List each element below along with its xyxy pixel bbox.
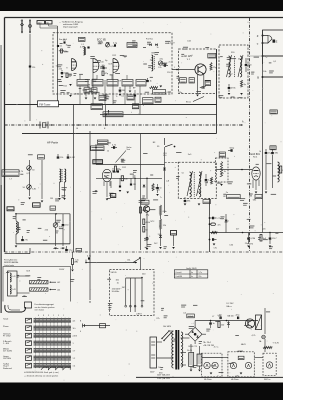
terminal label box 60 ohm xyxy=(46,21,53,24)
wire right column risers xyxy=(265,158,267,190)
terminal label box TA/TE xyxy=(2,170,19,177)
tube V1 heater xyxy=(204,362,210,368)
wire C line left faint xyxy=(250,55,263,57)
svg-text:0A70: 0A70 xyxy=(241,343,247,346)
wire osc section bus xyxy=(16,213,70,215)
ground ground20 xyxy=(126,192,129,194)
ground ground7 xyxy=(160,86,163,88)
svg-text:1M: 1M xyxy=(122,287,125,289)
capacitor C2b xyxy=(87,46,89,48)
capacitor C2 xyxy=(61,72,64,74)
svg-text:150 286k: 150 286k xyxy=(3,358,11,360)
svg-text:50-60Hz: 50-60Hz xyxy=(112,291,120,293)
resistor R12 zigzag xyxy=(240,80,242,87)
antenna dipole symbol AN1 xyxy=(21,20,23,34)
wire IF bus lower xyxy=(96,177,162,179)
annotation scan noise speckles xyxy=(179,21,182,24)
switch matrix sawtooth contacts xyxy=(41,367,70,370)
ground ground21b xyxy=(119,190,122,192)
capacitor C64 xyxy=(269,237,272,239)
node arrow A xyxy=(241,124,243,126)
capacitor C20 xyxy=(57,156,60,158)
wire core line L20 xyxy=(61,169,63,182)
label box K9 xyxy=(127,95,134,100)
wire cap leads psu xyxy=(190,344,192,353)
capacitor C1b input xyxy=(57,45,59,47)
resistor R2 xyxy=(102,71,104,76)
capacitor C40 xyxy=(230,149,232,152)
svg-text:Ox×xx0: Ox×xx0 xyxy=(175,271,181,274)
svg-text:BA 100: BA 100 xyxy=(228,315,234,318)
capacitor C1c xyxy=(63,41,65,43)
label box Fi2 values xyxy=(203,200,211,204)
svg-text:1 - 400: 1 - 400 xyxy=(3,343,9,345)
ferrite rod upper hatched xyxy=(30,281,49,284)
varicap diode D2 xyxy=(155,44,157,46)
label box row K5 xyxy=(136,80,146,87)
wire det out line xyxy=(216,169,252,171)
label box 1xx xyxy=(141,200,149,204)
svg-text:0,5M: 0,5M xyxy=(70,157,75,159)
trimmer capacitor CT2 xyxy=(27,166,32,171)
svg-text:L43: L43 xyxy=(13,289,16,291)
wire d11 riser xyxy=(225,214,227,220)
svg-text:1 7: 1 7 xyxy=(73,350,76,352)
wire tube pins Rö4 xyxy=(252,180,254,188)
label box row K3 xyxy=(107,80,118,87)
switch S2 pickup xyxy=(133,259,140,263)
transformer core bar 2 xyxy=(178,330,180,370)
dipole symbol on A-line xyxy=(36,124,38,126)
capacitor C35 xyxy=(205,179,208,181)
node B junction xyxy=(262,76,264,78)
trimmer capacitor CT3 xyxy=(27,185,32,190)
switch row 1 bus lines xyxy=(34,318,72,320)
svg-text:0x: 0x xyxy=(191,276,193,278)
wire mid section right border xyxy=(216,94,218,134)
switch row 6 contact ticks xyxy=(35,355,37,360)
svg-text:ECC 85: ECC 85 xyxy=(97,39,106,42)
IF transformer dashed box Fi1 xyxy=(219,45,248,98)
capacitor C31 xyxy=(112,170,114,172)
resistor R51 xyxy=(143,227,145,233)
label box K8 xyxy=(99,96,106,101)
capacitor C13 xyxy=(228,87,231,89)
svg-text:1M: 1M xyxy=(142,210,145,212)
electrolytic C81 can xyxy=(189,353,194,367)
wire C line to right edge xyxy=(263,55,284,57)
svg-text:1M: 1M xyxy=(133,184,136,186)
svg-text:Text: Text xyxy=(126,148,130,151)
switch row 5 contact ticks xyxy=(35,348,37,353)
capacitor C9 xyxy=(146,80,149,82)
svg-text:4: 4 xyxy=(38,315,39,317)
wire triode cathode leads xyxy=(92,73,94,105)
label box row K2 xyxy=(92,80,103,87)
ground ground14 xyxy=(63,198,66,200)
IF transformer dashed box Fi2 xyxy=(178,162,216,198)
svg-text:Tr: Tr xyxy=(160,196,162,199)
ground ground26 xyxy=(265,192,268,194)
wire am osc risers xyxy=(15,214,17,221)
tube V5 heater xyxy=(266,362,272,368)
tube Rö3 EBF80 xyxy=(102,169,111,181)
wire feed from selector to psu xyxy=(83,325,111,327)
ground ground29 xyxy=(172,247,175,249)
wire tube pins xyxy=(103,181,105,186)
capacitor C30 xyxy=(113,146,115,149)
ferrite antenna enclosure box xyxy=(3,267,71,302)
ground ground15 xyxy=(15,246,18,248)
ground ground18 xyxy=(95,191,98,193)
rectifier bridge B250 xyxy=(188,327,202,341)
svg-text:1M: 1M xyxy=(50,198,53,200)
switch S7 contact box xyxy=(26,363,32,368)
inductor L11 secondary xyxy=(240,56,242,77)
svg-text:E: E xyxy=(276,40,278,44)
label box B2 xyxy=(189,78,194,83)
switch S3 contact box xyxy=(26,333,32,338)
ground ground41 xyxy=(198,370,201,372)
node E on A-line xyxy=(105,124,107,126)
wire am osc cluster right xyxy=(69,214,71,244)
fuse F1 2A xyxy=(262,335,266,339)
svg-text:B250 C75: B250 C75 xyxy=(189,346,197,348)
svg-text:Tr: Tr xyxy=(116,95,118,98)
tube V4 heater xyxy=(245,362,251,368)
diode D5 small xyxy=(143,185,146,187)
ground ground21 xyxy=(156,194,159,196)
ground ground27 xyxy=(146,248,149,250)
svg-text:47x: 47x xyxy=(218,224,221,226)
label box top right 1 xyxy=(270,110,277,114)
wire antenna lead 1 xyxy=(40,24,57,28)
ground ground40 xyxy=(190,370,193,372)
switch matrix column wires xyxy=(35,318,37,368)
switch row 2 bus lines xyxy=(34,325,72,327)
node C junction xyxy=(262,55,264,57)
svg-text:4,5: 4,5 xyxy=(73,320,76,322)
svg-text:CxxH3B: CxxH3B xyxy=(175,276,182,278)
annotation value-label texture group 12 xyxy=(269,62,272,64)
capacitor C4 xyxy=(119,89,122,91)
svg-text:0A70: 0A70 xyxy=(61,247,67,250)
wire link line y262.5 xyxy=(86,262,137,264)
ground ground22 xyxy=(184,204,187,206)
capacitor C60 xyxy=(209,217,211,219)
transformer core bar 1 xyxy=(175,330,177,370)
capacitor C42 xyxy=(271,152,274,154)
svg-text:FERRITE AERIAL: FERRITE AERIAL xyxy=(4,261,18,264)
wire fm bottom stubs xyxy=(85,90,87,97)
svg-text:220/110V∼: 220/110V∼ xyxy=(112,289,122,291)
HF board dashed box xyxy=(228,352,254,377)
switch S1B2 xyxy=(164,138,166,145)
antenna arrow Y xyxy=(108,110,110,115)
capacitor C12 xyxy=(245,64,248,66)
wire A-line dash-dot to second chassis xyxy=(5,124,242,126)
label box C2a values xyxy=(127,43,137,48)
wire riser x140 lower xyxy=(140,134,142,251)
page background film border top xyxy=(0,0,283,11)
switch S1 contact box xyxy=(26,318,32,323)
label box row K1 xyxy=(77,80,88,87)
svg-text:2,6 B: 2,6 B xyxy=(73,335,78,337)
resistor R31 on bus xyxy=(121,176,123,181)
switch row 4 contact ticks xyxy=(35,340,37,345)
wire emitter collector leads xyxy=(197,75,199,94)
transformer Tr secondary winding xyxy=(181,332,183,367)
switch S6 contact box xyxy=(26,356,32,361)
capacitor C80 xyxy=(209,322,212,324)
label box bottom M1 xyxy=(143,98,154,104)
label box K7 xyxy=(92,88,98,93)
annotation value-label texture group 8 xyxy=(161,307,164,309)
ground ground13 xyxy=(58,198,61,200)
node u xyxy=(262,42,264,44)
transistor Tr2 mixer xyxy=(195,64,206,75)
annotation value-label texture group 5 xyxy=(139,200,144,202)
switch row 7 bus lines xyxy=(34,363,72,365)
triode system Rö1a xyxy=(71,59,73,71)
label box osc values xyxy=(153,90,166,94)
mains switch S10 xyxy=(162,332,169,339)
label box 4,7k xyxy=(219,152,225,157)
mains selector dashed box VM xyxy=(110,270,155,316)
wire heater bus xyxy=(222,357,228,359)
ground ground43 xyxy=(240,373,243,375)
capacitor C62 xyxy=(209,239,211,241)
wire det riser x164 xyxy=(164,147,166,205)
inductor L10 primary xyxy=(229,56,231,77)
capacitor C2a xyxy=(114,44,116,46)
switch row 7 contact ticks xyxy=(35,363,37,368)
wire right psu vertical xyxy=(264,308,266,334)
label box HD xyxy=(238,356,244,359)
wire HF box bottom left corner xyxy=(5,253,31,255)
rectifier box right xyxy=(256,315,262,330)
inductor L21 antenna coil b xyxy=(65,169,66,182)
label box 1x4 dark xyxy=(111,194,116,198)
trimmer capacitor CT1 xyxy=(158,61,162,65)
label box B3 xyxy=(205,80,210,85)
resistor R9 zigzag xyxy=(210,63,212,71)
connector plug symbol xyxy=(100,324,106,328)
node Z xyxy=(262,35,264,37)
switch row 5 bus lines xyxy=(34,348,72,350)
switch S5 contact box xyxy=(26,348,32,353)
varicap diode D1 xyxy=(149,44,151,46)
svg-text:T× 6,3V: T× 6,3V xyxy=(273,342,280,345)
svg-text:1: 1 xyxy=(63,315,64,317)
svg-text:3: 3 xyxy=(48,315,49,317)
triode wedge EM84 xyxy=(268,36,272,44)
svg-text:Für/Tüv: Für/Tüv xyxy=(146,39,153,41)
resistor R41 xyxy=(280,166,282,173)
label box ZF Dr10 xyxy=(91,104,103,110)
switch row 6 bus lines xyxy=(34,355,72,357)
wire secondary tap leads xyxy=(181,337,190,339)
wire avc riser 2 xyxy=(160,215,162,219)
triode system Rö1 right half xyxy=(112,59,114,73)
label box B4 right column xyxy=(208,54,216,59)
label box B1 xyxy=(180,78,187,83)
capacitor C25 xyxy=(21,239,24,241)
svg-text:100/V: 100/V xyxy=(59,269,65,271)
wire label-row drop wires xyxy=(79,86,81,105)
ground ground30 xyxy=(247,246,250,248)
inductor L1 input coil xyxy=(84,47,85,56)
wire R70 leads xyxy=(72,252,74,259)
svg-text:8: 8 xyxy=(43,315,44,317)
ground ground16 xyxy=(54,248,57,250)
svg-text:517 1049k: 517 1049k xyxy=(3,351,12,353)
label box 0A 0A2 xyxy=(132,104,138,109)
wire main frame left border xyxy=(4,18,6,253)
wire det stub xyxy=(173,235,175,246)
wire core dashes Fi1 xyxy=(234,56,236,77)
ground ground42 xyxy=(210,373,213,375)
svg-text:C9x: C9x xyxy=(214,248,217,250)
svg-text:2: 2 xyxy=(179,67,180,69)
ground ground1 xyxy=(61,76,64,78)
wire right bus y232 xyxy=(210,232,284,234)
svg-text:0,5M: 0,5M xyxy=(251,238,256,240)
label box C1 xyxy=(79,37,86,41)
pushbutton mechanism drawing xyxy=(5,305,26,312)
svg-text:10k 340V: 10k 340V xyxy=(163,326,172,328)
svg-text:1 4: 1 4 xyxy=(73,365,76,367)
ground ground23 xyxy=(198,204,201,206)
switch S2 contact box xyxy=(26,326,32,331)
wire det drops xyxy=(146,178,148,199)
page background film border bottom xyxy=(0,383,283,400)
svg-text:4n7: 4n7 xyxy=(236,229,239,231)
wire afc riser xyxy=(146,212,148,237)
svg-text:Drucktastenaggregat: Drucktastenaggregat xyxy=(35,303,55,306)
switch row 2 contact ticks xyxy=(35,325,37,330)
label box on AM line xyxy=(103,112,123,117)
svg-text:7B× 7B×2: 7B× 7B×2 xyxy=(203,341,211,344)
svg-text:HF-Platte: HF-Platte xyxy=(231,378,239,381)
svg-text:Phono: Phono xyxy=(3,326,8,328)
wire riser from label xyxy=(95,144,97,165)
svg-text:R1: R1 xyxy=(76,262,78,264)
ground ground5 xyxy=(104,97,107,99)
capacitor C70 xyxy=(88,257,90,259)
resistor R90 heater dropper zigzag xyxy=(263,346,272,348)
ground ground28 xyxy=(159,247,162,249)
switch S4 contact box xyxy=(26,341,32,346)
ground ground8 xyxy=(196,95,199,97)
label box L410 C58 xyxy=(97,140,108,144)
transformer Tr primary winding xyxy=(172,331,174,368)
svg-text:22x: 22x xyxy=(199,276,202,278)
wire link to selector xyxy=(140,259,142,270)
svg-text:5×60 7|0A 12BV: 5×60 7|0A 12BV xyxy=(157,377,171,380)
wire rod leads xyxy=(17,275,30,277)
ground ground4 xyxy=(94,98,97,100)
capacitor C38 xyxy=(119,185,121,187)
wire riser x42 xyxy=(41,160,43,199)
svg-text:1M: 1M xyxy=(88,88,91,90)
diode D11 xyxy=(225,220,228,222)
svg-text:1: 1 xyxy=(73,343,74,345)
label box 6C1H0 dark xyxy=(93,160,103,164)
wire am coil leads xyxy=(59,182,61,197)
inductor L30 Fi2 primary xyxy=(190,172,192,197)
resistor R1b xyxy=(61,49,63,53)
svg-text:U.RST: U.RST xyxy=(136,314,143,316)
svg-text:BA×××: BA××× xyxy=(227,305,233,308)
wire B line to right edge xyxy=(263,76,284,78)
wire selector top link xyxy=(126,277,142,279)
capacitor C feeder xyxy=(29,65,31,67)
svg-text:B: B xyxy=(257,75,259,79)
resistor R62 zigzag on bus xyxy=(211,231,217,233)
inductor L20 antenna coil a xyxy=(60,169,61,182)
trimmer capacitor CT0 xyxy=(106,43,110,47)
wire FM tuner enclosure bottom border xyxy=(5,104,217,106)
capacitor C3 coupling xyxy=(102,67,104,70)
capacitor C83 plus xyxy=(219,317,221,320)
label box L410 C1850 xyxy=(91,146,104,151)
tube V2 heater xyxy=(212,362,218,368)
diode D6 on riser xyxy=(163,168,166,170)
svg-text:NTC: NTC xyxy=(151,221,156,223)
wire section divider vertical dash-dot xyxy=(249,18,251,252)
switch row 4 bus lines xyxy=(34,340,72,342)
ground ground9 xyxy=(240,93,243,95)
svg-text:540V: 540V xyxy=(150,372,155,374)
switch row 3 contact ticks xyxy=(35,333,37,338)
resistor dashed box R40 xyxy=(216,158,229,182)
svg-text:120: 120 xyxy=(32,67,35,69)
inductor L31 Fi2 secondary xyxy=(199,172,201,197)
label box K6 xyxy=(84,88,90,93)
enclosure label FM-Tuner xyxy=(38,101,59,107)
svg-text:0n: 0n xyxy=(191,272,193,274)
svg-text:1: 1 xyxy=(174,67,175,69)
svg-text:FM-Tun.: FM-Tun. xyxy=(264,379,271,381)
ground ground6 xyxy=(119,94,122,96)
svg-text:Dipol angezapft: Dipol angezapft xyxy=(63,26,78,29)
ground ground6c xyxy=(129,91,132,93)
wire trimmer riser xyxy=(29,160,31,196)
tube V3 heater xyxy=(230,362,236,368)
resistor R70 xyxy=(72,259,74,265)
ground ground31 xyxy=(269,246,272,248)
coil former L41 body xyxy=(8,271,18,296)
wire riser x164 low xyxy=(164,205,166,213)
svg-text:FT 17/02: FT 17/02 xyxy=(3,336,11,338)
capacitor C84 plus xyxy=(237,317,239,320)
svg-text:1M: 1M xyxy=(122,90,125,92)
resistor R35 zigzag xyxy=(210,177,212,184)
annotation value-label texture group 6 xyxy=(250,225,255,227)
ground ground24 xyxy=(255,192,258,194)
inductor L43 winding xyxy=(10,285,11,294)
svg-text:Radio-und: Radio-und xyxy=(3,368,12,370)
svg-text:22n: 22n xyxy=(263,229,266,231)
label box JA TJB xyxy=(227,195,241,199)
diode D8 xyxy=(146,237,149,239)
diode D9 xyxy=(159,235,162,237)
svg-text:EL/xx: EL/xx xyxy=(186,102,191,104)
oscillator dashed box xyxy=(179,49,217,94)
capacitor C41 xyxy=(265,152,268,154)
svg-text:1: 1 xyxy=(53,315,54,317)
